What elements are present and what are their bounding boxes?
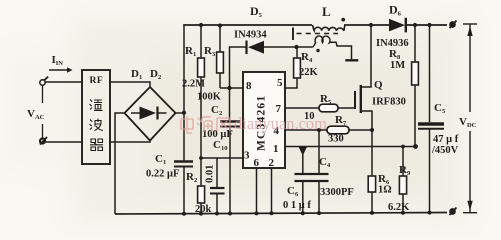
node drain junction	[369, 23, 373, 27]
terminal AC input top	[40, 77, 48, 86]
svg-text:3: 3	[244, 150, 250, 162]
label I_IN	[52, 54, 64, 67]
wire bottom ground rail	[115, 213, 447, 215]
label V_DC	[459, 116, 477, 129]
terminal DC output negative	[450, 208, 457, 216]
capacitor C6	[295, 147, 312, 214]
bridge rectifier D1 D2	[125, 87, 176, 141]
wire bridge negative down to bottom rail	[115, 113, 125, 214]
wire pin 8	[220, 87, 243, 89]
transistor Q IRF830	[355, 25, 372, 130]
svg-text:1M: 1M	[390, 60, 405, 71]
node pin8 junction	[227, 86, 231, 90]
label IN4934	[234, 30, 267, 41]
svg-text:5: 5	[277, 77, 283, 89]
glyph 滤	[90, 100, 103, 111]
svg-text:Q: Q	[374, 79, 383, 91]
diode D6 IN4936	[389, 18, 447, 33]
svg-text:D6: D6	[389, 3, 402, 18]
svg-text:8: 8	[246, 80, 252, 92]
svg-text:2.2M: 2.2M	[182, 79, 205, 90]
glyph 器	[90, 139, 103, 151]
RF filter box	[82, 70, 110, 164]
svg-text:47 μ f: 47 μ f	[433, 134, 459, 145]
node R3 top	[218, 23, 222, 27]
ground ZCD winding	[345, 59, 358, 61]
resistor R6	[368, 130, 375, 214]
svg-text:1: 1	[273, 143, 279, 155]
svg-text:2: 2	[269, 157, 275, 169]
capacitor C1	[174, 113, 193, 214]
resistor R4	[285, 47, 300, 88]
label D1	[131, 68, 142, 81]
label V_AC	[27, 108, 45, 121]
wire DC+ riser to top rail	[183, 25, 185, 113]
capacitor C5	[418, 23, 444, 213]
op-amp U1 IC MC34261	[243, 72, 285, 168]
transformer core	[293, 28, 338, 41]
wire pin 3	[201, 157, 243, 159]
svg-text:/450V: /450V	[431, 145, 459, 156]
svg-text:0.01: 0.01	[205, 165, 216, 183]
svg-text:6.2K: 6.2K	[388, 202, 410, 213]
node source junction	[370, 128, 374, 132]
svg-text:3300PF: 3300PF	[320, 187, 354, 198]
node DC+ junction	[182, 111, 186, 115]
terminal DC output positive	[450, 21, 457, 29]
node ground rail junctions	[182, 211, 432, 216]
svg-text:D5: D5	[250, 4, 263, 19]
svg-text:IRF830: IRF830	[372, 97, 406, 108]
node ZCD winding junction	[294, 45, 298, 49]
svg-text:RF: RF	[90, 76, 104, 86]
resistor R9	[399, 145, 406, 214]
svg-text:6: 6	[254, 157, 260, 169]
svg-text:100K: 100K	[197, 92, 222, 103]
node V_DC dimension line	[463, 24, 477, 213]
wire pin 6 to ground rail	[256, 168, 258, 214]
inductor L primary winding	[313, 25, 346, 31]
glyph 波	[90, 119, 104, 131]
inductor L secondary winding	[297, 36, 352, 59]
terminal AC input bottom	[40, 137, 47, 145]
capacitor C2	[220, 88, 240, 214]
resistor R1	[198, 25, 205, 158]
wire bridge positive to node	[176, 112, 185, 114]
node polarity dot secondary	[316, 49, 319, 52]
resistor R5	[285, 104, 355, 112]
label D6	[389, 3, 402, 18]
svg-text:22K: 22K	[299, 67, 319, 78]
wire top rail to D6	[352, 24, 389, 26]
capacitor C4	[311, 128, 329, 214]
diode D5 IN4934	[230, 41, 295, 89]
label D2	[150, 68, 161, 81]
svg-text:330: 330	[328, 134, 344, 145]
resistor R2	[198, 158, 205, 214]
wire top rail left section	[183, 24, 312, 26]
wire AC top	[45, 81, 82, 83]
label D5	[250, 4, 263, 19]
resistor R3	[217, 25, 224, 88]
label L	[322, 4, 331, 19]
svg-text:0 1 μ f: 0 1 μ f	[283, 200, 311, 211]
wire pin 2 to ground rail	[271, 168, 273, 214]
node V_AC measure line	[42, 86, 44, 104]
watermark	[181, 114, 327, 133]
capacitor C10	[210, 158, 225, 214]
label IN4936	[376, 38, 409, 49]
node polarity dot primary	[341, 18, 345, 22]
node R1 top	[199, 23, 203, 27]
svg-text:dianyuan.com: dianyuan.com	[234, 114, 327, 133]
svg-text:1Ω: 1Ω	[378, 185, 392, 196]
wire AC bottom	[45, 141, 82, 143]
wire RF box to bridge bottom	[110, 140, 150, 142]
svg-text:L: L	[322, 4, 331, 19]
resistor R8	[412, 23, 419, 149]
svg-text:0.22 μF: 0.22 μF	[146, 169, 179, 180]
svg-text:IN4934: IN4934	[234, 30, 267, 41]
resistor R7	[285, 126, 372, 134]
wire pin 1 feedback	[285, 146, 416, 148]
wire RF box to bridge top	[110, 82, 150, 88]
